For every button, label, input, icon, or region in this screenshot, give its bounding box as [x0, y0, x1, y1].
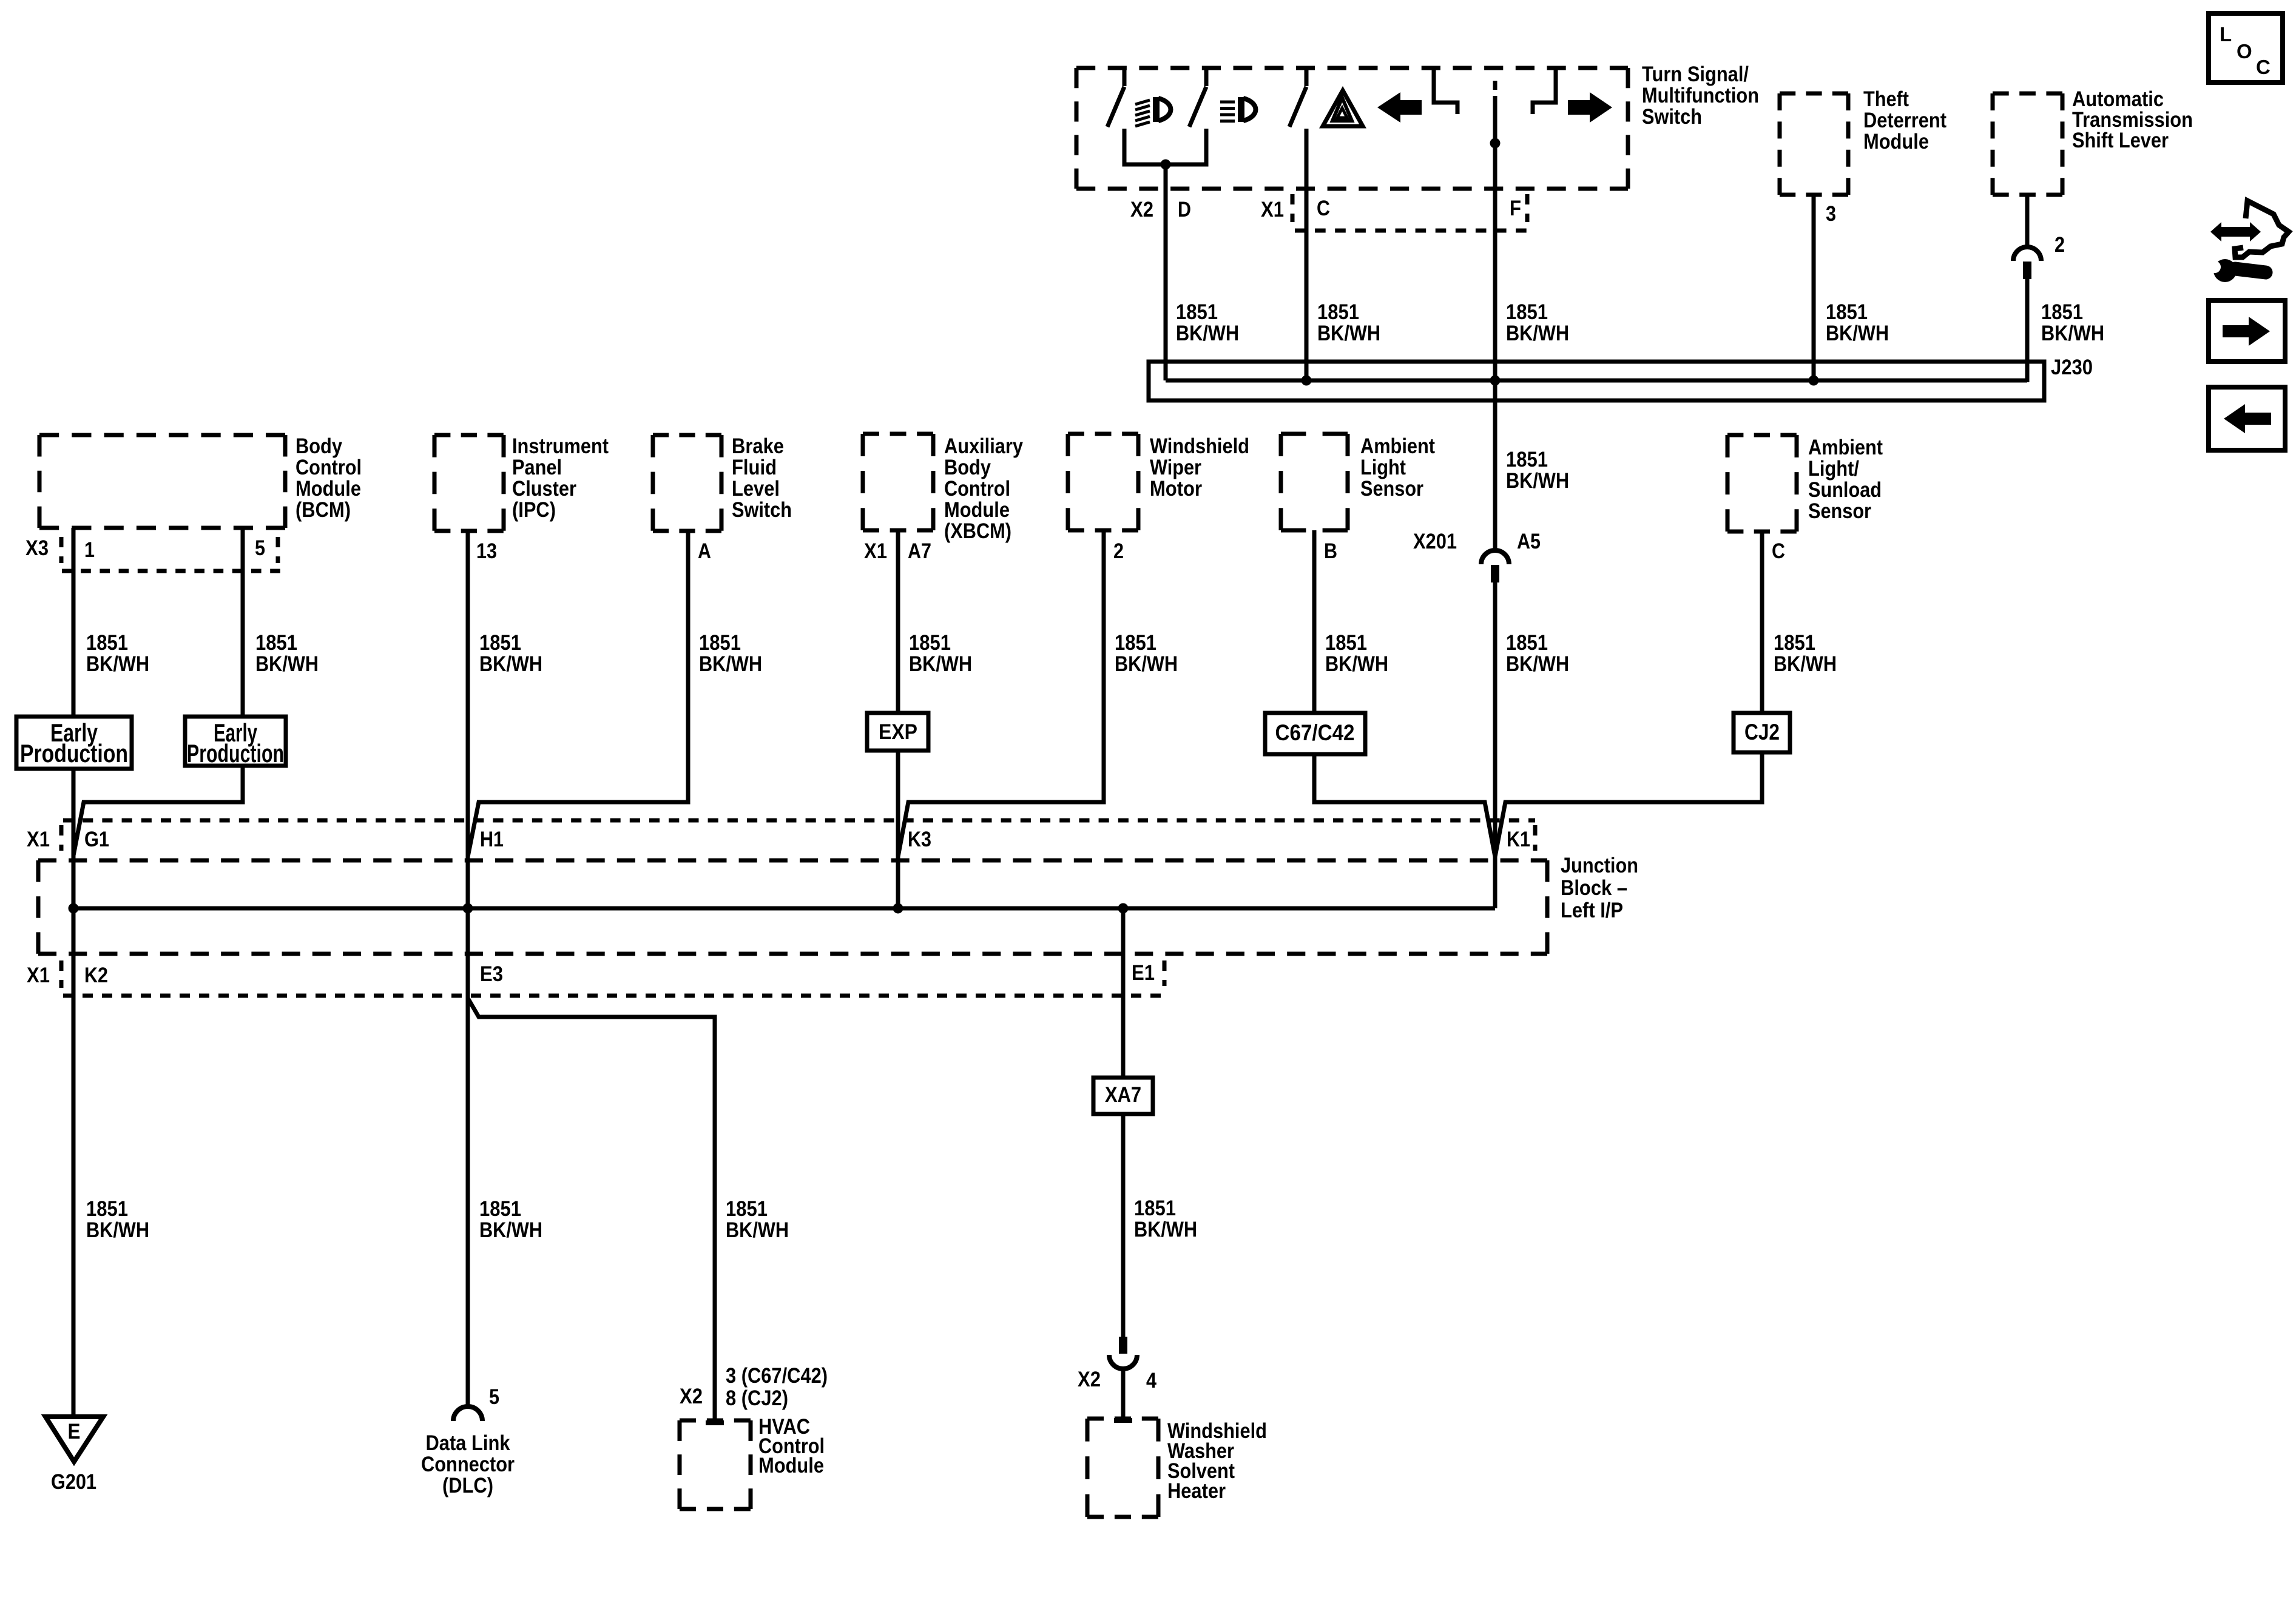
ambient light / sunload sensor box: [1727, 435, 1797, 532]
svg-text:G1: G1: [84, 828, 109, 851]
svg-text:J230: J230: [2051, 356, 2093, 379]
svg-text:F: F: [1510, 197, 1521, 220]
data link connector arc: [453, 1406, 482, 1421]
low beam lamp symbol: [1238, 97, 1244, 122]
junction H1: [463, 903, 473, 914]
wire: C67/C42 joins K1: [1314, 754, 1495, 857]
connector X1 strip under switch (pins C,F): [1291, 194, 1295, 222]
svg-text:K3: K3: [908, 828, 931, 851]
wire: shift lever to J230: [2025, 279, 2030, 382]
left turn arrow: [1377, 92, 1422, 123]
svg-text:X3: X3: [25, 536, 49, 560]
brake fluid level switch box: [653, 435, 721, 531]
svg-text:E: E: [68, 1420, 81, 1443]
wire: headlamp common U: [1124, 129, 1206, 164]
wire: wiper motor pin 2 joins K3: [898, 530, 1104, 857]
turn signal pivot contact left: [1434, 68, 1457, 114]
svg-text:A7: A7: [908, 539, 931, 563]
junction: headlamp common: [1161, 160, 1171, 170]
hazard switch contact: [1305, 68, 1309, 86]
wire: XBCM pin A7 to EXP: [896, 530, 900, 713]
junction K3: [893, 903, 903, 914]
in-line connector X201 pin A5: [1481, 550, 1509, 582]
terminal bar washer heater: [1114, 1418, 1132, 1423]
connector X3 strip under BCM: [59, 537, 64, 563]
junction theft wire at J230: [1809, 376, 1819, 386]
svg-text:X1: X1: [864, 539, 887, 563]
windshield wiper motor box: [1068, 434, 1138, 530]
svg-text:4: 4: [1146, 1369, 1156, 1393]
wire: IPC pin 13 to junction block H1: [466, 531, 470, 908]
svg-text:3 (C67/C42): 3 (C67/C42): [726, 1364, 828, 1388]
wire: connector to washer heater: [1121, 1369, 1126, 1419]
svg-text:EXP: EXP: [879, 720, 917, 744]
data-link/diagnostic icon (double arrow, vehicle outline, wrench): [2210, 222, 2261, 241]
headlamp switch contact 1: [1123, 68, 1127, 86]
right turn arrow: [1568, 92, 1612, 123]
svg-text:C67/C42: C67/C42: [1275, 720, 1355, 745]
svg-text:C: C: [2256, 56, 2271, 78]
svg-text:K1: K1: [1507, 828, 1530, 851]
terminal bar HVAC: [706, 1420, 724, 1425]
LOC legend box: [2209, 13, 2283, 83]
windshield washer solvent heater box: [1087, 1419, 1158, 1517]
svg-text:E3: E3: [480, 962, 503, 986]
C67/C42 option box: [1265, 713, 1365, 754]
wire: CJ2 joins K1: [1495, 752, 1762, 857]
svg-text:X1: X1: [1261, 198, 1284, 221]
XA7 option box: [1093, 1078, 1153, 1114]
splice pack J230 outer: [1149, 362, 2044, 400]
junction block internal bus: [73, 906, 1495, 911]
junction E1: [1118, 903, 1129, 914]
splice bus wire J230: [1166, 379, 2027, 383]
svg-text:3: 3: [1826, 202, 1836, 226]
wire: early production 2 joins G1: [73, 766, 243, 856]
automatic transmission shift lever box: [1993, 93, 2062, 195]
turn signal / multifunction switch box: [1076, 68, 1628, 189]
wire: A5 to junction block K1: [1493, 582, 1497, 908]
wire: pin D down from switch: [1164, 164, 1168, 380]
hazard warning triangle symbol: [1323, 90, 1363, 126]
in-line connector X2 pin 4 (washer heater): [1109, 1337, 1137, 1369]
wire: early production 1 to G1: [72, 769, 76, 1417]
HVAC control module box: [680, 1420, 751, 1509]
svg-text:X2: X2: [680, 1385, 703, 1408]
svg-text:X2: X2: [1130, 198, 1153, 221]
junction C wire at J230: [1302, 376, 1312, 386]
svg-text:8 (CJ2): 8 (CJ2): [726, 1386, 788, 1410]
wire: brake fluid pin A joins H1: [468, 531, 688, 857]
svg-text:G201: G201: [51, 1470, 96, 1494]
junction G1: [69, 903, 79, 914]
theft deterrent module box: [1780, 93, 1848, 195]
svg-text:C: C: [1317, 197, 1330, 220]
svg-text:1: 1: [84, 538, 95, 562]
back arrow legend box: [2209, 387, 2285, 450]
svg-text:XA7: XA7: [1105, 1083, 1141, 1107]
svg-text:2: 2: [1113, 539, 1124, 563]
junction block - left I/P box: [38, 860, 1547, 954]
wire: E1 down to XA7: [1121, 908, 1126, 1078]
svg-text:D: D: [1178, 198, 1191, 221]
junction on F wire: [1490, 138, 1501, 149]
svg-text:2: 2: [2055, 233, 2065, 257]
early production box 2: [185, 717, 286, 766]
instrument panel cluster box: [434, 435, 504, 531]
auxiliary body control module box: [863, 434, 933, 530]
wire: H1/K2 down to DLC: [466, 908, 470, 1406]
svg-text:L: L: [2220, 23, 2232, 46]
wire: pin C down from hazard switch: [1305, 129, 1309, 380]
wire: shift lever pin 2: [2025, 195, 2030, 246]
svg-text:H1: H1: [480, 828, 504, 851]
svg-text:B: B: [1324, 539, 1337, 563]
ground symbol E / G201: [46, 1417, 103, 1462]
wire: sunload pin C to CJ2: [1760, 532, 1764, 713]
ambient light sensor box: [1281, 434, 1348, 530]
in-line connector (shift lever pin 2): [2013, 247, 2041, 279]
wire: sensor pin B to C67/C42: [1312, 530, 1317, 713]
CJ2 option box: [1734, 713, 1790, 752]
junction F wire at J230: [1490, 376, 1501, 386]
wire: E3 branch to HVAC: [468, 998, 715, 1423]
svg-text:5: 5: [489, 1385, 499, 1409]
wire: BCM pin 5: [241, 528, 245, 717]
EXP option box: [867, 713, 928, 751]
svg-text:E1: E1: [1132, 961, 1155, 985]
high beam lamp symbol: [1153, 97, 1160, 122]
wire: pin F (dashed mechanical link): [1493, 81, 1497, 101]
turn signal pivot contact right: [1533, 68, 1556, 114]
svg-text:X201: X201: [1413, 530, 1457, 553]
svg-text:CJ2: CJ2: [1744, 720, 1780, 744]
svg-text:13: 13: [476, 539, 497, 563]
svg-text:K2: K2: [84, 964, 108, 987]
forward arrow legend box: [2209, 300, 2285, 362]
svg-text:A5: A5: [1517, 530, 1541, 553]
svg-text:X1: X1: [27, 964, 50, 987]
svg-text:O: O: [2237, 40, 2252, 62]
connector X1 strip bottom of junction block: [59, 960, 64, 988]
headlamp switch contact 2: [1204, 68, 1209, 86]
svg-text:5: 5: [255, 536, 265, 560]
svg-text:X2: X2: [1078, 1368, 1101, 1391]
wire: theft deterrent pin 3 to J230: [1812, 195, 1816, 380]
wire: BCM pin 1: [72, 528, 76, 717]
connector X1 strip top of junction block: [63, 819, 1535, 823]
svg-text:A: A: [698, 539, 711, 563]
wire: XA7 to washer heater connector: [1121, 1114, 1126, 1337]
wire: pin F down through switch: [1493, 101, 1497, 550]
body control module (BCM) box: [39, 435, 285, 528]
svg-text:C: C: [1772, 539, 1785, 563]
early production box 1: [16, 717, 132, 769]
wire: EXP to junction block K3: [896, 751, 900, 908]
svg-text:X1: X1: [27, 828, 50, 851]
